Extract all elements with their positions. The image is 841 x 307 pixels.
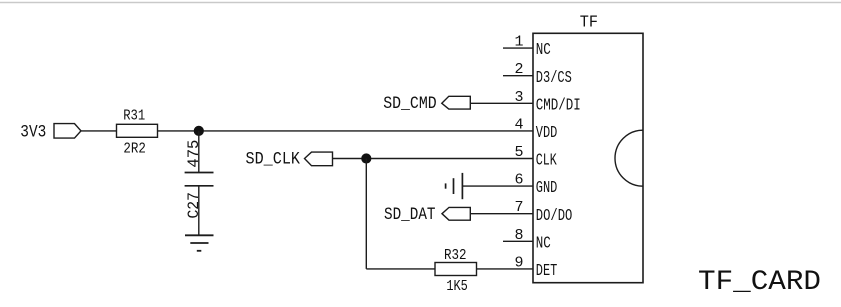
- svg-text:8: 8: [514, 227, 523, 244]
- wire SD_CMD to pin 3: [470, 102, 533, 104]
- svg-text:TF: TF: [580, 13, 598, 32]
- wire junction to C27 top plate: [198, 131, 200, 173]
- svg-text:9: 9: [514, 254, 523, 271]
- svg-text:3: 3: [514, 89, 523, 106]
- wire VDD net: R31 to pin 4: [158, 130, 534, 132]
- port SD_CLK symbol: [305, 152, 333, 166]
- wire ground to pin 6: [462, 185, 533, 187]
- svg-text:D3/CS: D3/CS: [536, 68, 572, 87]
- resistor R32: [435, 263, 477, 276]
- svg-text:SD_DAT: SD_DAT: [384, 205, 436, 225]
- svg-text:NC: NC: [536, 40, 551, 59]
- svg-text:4: 4: [514, 116, 523, 133]
- wire R32 to pin 9: [477, 268, 534, 270]
- capacitor C27: [185, 172, 214, 174]
- top border line: [0, 2, 841, 4]
- wire 3V3 to R31: [81, 130, 117, 132]
- pin 8 stub: [503, 240, 533, 242]
- svg-text:SD_CMD: SD_CMD: [383, 94, 437, 114]
- svg-text:6: 6: [514, 172, 523, 189]
- svg-text:CLK: CLK: [536, 151, 557, 170]
- svg-text:C27: C27: [185, 192, 203, 219]
- wire SD_DAT to pin 7: [470, 213, 533, 215]
- junction node VDD/C27: [194, 126, 204, 136]
- svg-text:1K5: 1K5: [446, 278, 468, 295]
- IC U1 TF card socket box: [533, 33, 643, 282]
- port SD_DAT symbol: [442, 207, 470, 220]
- svg-text:R31: R31: [123, 108, 145, 125]
- junction node CLK/DET branch: [361, 153, 371, 163]
- svg-text:2: 2: [514, 61, 523, 78]
- svg-text:CMD/DI: CMD/DI: [536, 95, 581, 114]
- port 3V3 symbol: [54, 124, 81, 139]
- pin 1 stub: [503, 47, 533, 49]
- wire DET row to R32: [366, 268, 435, 270]
- wire SD_CLK to pin 5: [333, 158, 534, 160]
- ground (pin 6 GND): [446, 173, 463, 199]
- svg-text:R32: R32: [444, 247, 467, 264]
- svg-text:475: 475: [185, 140, 203, 168]
- card slot notch: [615, 130, 643, 186]
- svg-text:7: 7: [514, 199, 523, 216]
- svg-text:SD_CLK: SD_CLK: [246, 150, 301, 170]
- svg-text:TF_CARD: TF_CARD: [698, 267, 821, 298]
- svg-text:DO/DO: DO/DO: [536, 206, 573, 225]
- ground (C27): [185, 235, 214, 251]
- svg-text:NC: NC: [536, 233, 551, 252]
- wire C27 to ground: [198, 186, 200, 236]
- svg-text:DET: DET: [536, 261, 558, 280]
- svg-text:3V3: 3V3: [20, 123, 46, 143]
- svg-text:VDD: VDD: [536, 123, 558, 142]
- svg-text:5: 5: [514, 144, 523, 161]
- svg-text:2R2: 2R2: [123, 141, 146, 158]
- resistor R31: [117, 124, 158, 137]
- pin 2 stub: [503, 75, 533, 77]
- svg-text:GND: GND: [536, 178, 558, 197]
- wire junction down to DET row: [365, 159, 367, 269]
- svg-text:1: 1: [514, 34, 523, 51]
- port SD_CMD symbol: [442, 96, 471, 109]
